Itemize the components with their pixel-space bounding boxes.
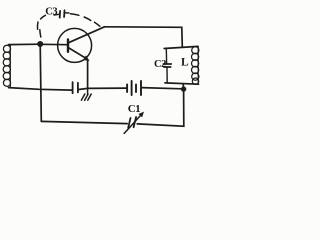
wire: bypass capacitor to battery (through ground junction): [79, 88, 126, 89]
node A (junction dot): [37, 41, 43, 47]
variable capacitor C1: [124, 112, 144, 134]
svg-text:C2: C2: [154, 59, 166, 70]
svg-text:L: L: [181, 57, 189, 69]
wire: coil top to node A: [9, 43, 41, 45]
wire: emitter down to ground junction: [87, 60, 89, 89]
battery B1: [127, 81, 141, 95]
wire: lower-left horizontal (coil bottom to bypass capacitor): [9, 88, 72, 91]
ground: [81, 88, 91, 100]
capacitor (emitter bypass): [73, 82, 78, 93]
wire: battery to node B: [142, 88, 182, 89]
wire: tank top bar: [164, 46, 198, 48]
transistor Q1: [58, 27, 105, 63]
inductor L: [192, 47, 199, 85]
wire: collector top rail to right side: [105, 27, 183, 47]
wire: tank bottom bar: [165, 83, 199, 84]
wire: node A to transistor base: [40, 43, 67, 45]
wire: left vertical from node A down to bottom-left corner: [40, 44, 41, 121]
wire: C1 to bottom-left corner: [41, 121, 127, 123]
dashed feedback wire (arc from node A to collector): [37, 14, 99, 37]
svg-text:C3: C3: [45, 6, 57, 17]
node B (junction dot): [181, 86, 186, 91]
svg-text:C1: C1: [128, 103, 140, 115]
wire: node B down right side and bottom to C1: [137, 84, 184, 126]
inductor (left antenna coil): [3, 45, 10, 87]
capacitor C3 (in dashed feedback path): [54, 10, 69, 17]
capacitor C2: [163, 48, 171, 83]
